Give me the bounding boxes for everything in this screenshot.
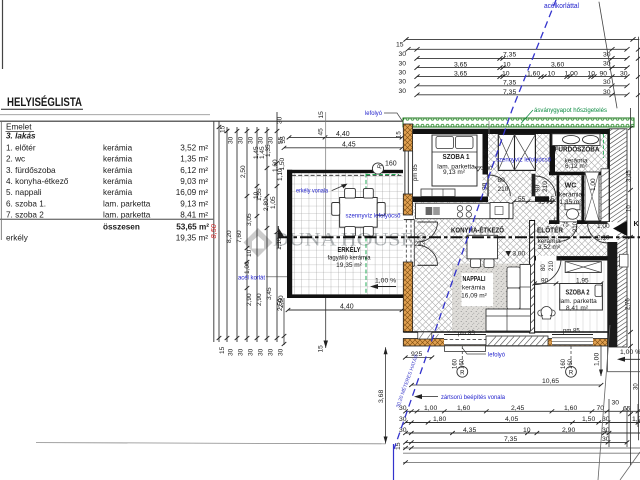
svg-text:30: 30 — [258, 136, 265, 144]
balcony bottom wall — [287, 295, 403, 299]
right party wall hatched band — [610, 129, 628, 347]
svg-text:30: 30 — [278, 348, 285, 356]
left wall orange segment 1 — [403, 124, 412, 151]
top ticks — [217, 125, 280, 340]
corridor dim line 55 95 5 — [514, 201, 556, 203]
svg-text:30: 30 — [248, 136, 255, 144]
dim 925 — [405, 357, 432, 359]
svg-text:kerámia: kerámia — [103, 188, 133, 197]
chain line 7 — [276, 112, 278, 342]
bottom row B3 — [406, 432, 640, 434]
chair right — [377, 203, 385, 216]
svg-text:2,50: 2,50 — [277, 298, 284, 311]
sofa seat bottom — [486, 309, 531, 331]
drop line 15 with arrow — [325, 298, 327, 348]
svg-text:HELYISÉGLISTA: HELYISÉGLISTA — [7, 94, 82, 109]
svg-text:10: 10 — [627, 205, 633, 212]
ásványgyapot leader — [521, 110, 533, 123]
dim line T1 — [406, 38, 639, 40]
svg-text:pm 85: pm 85 — [458, 331, 475, 337]
svg-text:erkély vonala: erkély vonala — [296, 188, 328, 195]
bottom wall pillar hatched — [418, 332, 432, 339]
svg-text:FÜRDŐSZOBA: FÜRDŐSZOBA — [555, 144, 601, 153]
shower box — [585, 172, 599, 221]
szoba1 door arc — [489, 175, 510, 196]
right slanted line — [598, 325, 610, 480]
page left border line — [2, 0, 4, 69]
chair left — [332, 203, 340, 216]
shaft X right — [515, 134, 536, 170]
svg-text:7. szoba 2: 7. szoba 2 — [6, 211, 44, 220]
dining table — [340, 198, 378, 228]
svg-text:NAPPALI: NAPPALI — [463, 274, 486, 283]
svg-text:30: 30 — [399, 60, 407, 67]
zártsorú arrow — [417, 396, 438, 398]
balcony tile grid — [292, 173, 403, 295]
svg-text:1,00: 1,00 — [424, 405, 437, 412]
upper faint line — [0, 114, 210, 116]
svg-text:2,50: 2,50 — [240, 165, 247, 178]
svg-text:8,41 m²: 8,41 m² — [180, 211, 208, 220]
wc right wall — [581, 175, 584, 224]
svg-text:90: 90 — [535, 184, 542, 192]
dim line T2 — [408, 48, 627, 50]
balcony top dim 4,45 — [284, 147, 402, 149]
szoba2 wardrobe — [565, 262, 601, 273]
corner box below building SE — [608, 347, 640, 372]
svg-text:lefolyó: lefolyó — [365, 110, 382, 117]
leader line to party wall — [599, 2, 617, 108]
svg-text:15: 15 — [318, 111, 325, 119]
svg-text:30: 30 — [258, 348, 265, 356]
svg-text:10,65: 10,65 — [542, 378, 559, 385]
downpipe 1 dashed — [461, 346, 463, 366]
svg-text:R: R — [569, 370, 574, 376]
svg-text:2. wc: 2. wc — [6, 155, 25, 164]
section marker right — [613, 221, 627, 236]
svg-text:2,45: 2,45 — [511, 405, 524, 412]
balcony top wall — [287, 170, 403, 173]
svg-text:8,20: 8,20 — [226, 230, 233, 243]
svg-text:1,05: 1,05 — [270, 196, 277, 209]
downpipe 2 dashed — [570, 346, 572, 366]
svg-text:3,45: 3,45 — [266, 287, 273, 300]
top wall — [403, 129, 618, 134]
right box small — [620, 254, 628, 267]
svg-text:3,68: 3,68 — [378, 390, 385, 403]
bottom wall inner line — [403, 331, 607, 333]
svg-text:55: 55 — [518, 196, 526, 203]
chain line 2 — [226, 127, 228, 342]
left wall orange segment 3 — [403, 262, 412, 332]
kitchen counter — [416, 203, 514, 219]
long line L4 — [403, 461, 640, 463]
szoba2 window gap in bottom wall — [552, 333, 593, 345]
shaft X left — [498, 134, 514, 170]
svg-text:4,40: 4,40 — [336, 131, 350, 138]
szoba1 bed — [432, 135, 477, 186]
downpipe 1 circle R — [457, 366, 468, 377]
svg-text:1,00: 1,00 — [244, 261, 251, 274]
szoba2 armchair — [541, 307, 552, 319]
svg-text:3,00: 3,00 — [513, 251, 526, 258]
svg-text:K: K — [634, 219, 640, 228]
svg-text:6,12 m²: 6,12 m² — [180, 166, 208, 175]
bathroom door leaf — [532, 174, 536, 197]
svg-text:3,52 m²: 3,52 m² — [538, 244, 561, 251]
bottom wall orange band — [403, 339, 608, 347]
svg-text:80: 80 — [498, 177, 506, 184]
erkély vonala leader arrow — [332, 185, 344, 190]
bathroom sink counter — [552, 134, 600, 146]
bottom row B2 — [406, 422, 640, 424]
svg-text:15: 15 — [318, 345, 325, 353]
NAPPALI text box — [461, 273, 493, 306]
svg-text:19,35 m²: 19,35 m² — [336, 262, 362, 269]
szoba1 window in left wall — [405, 151, 413, 194]
bed blanket line — [432, 151, 477, 153]
chair top right — [363, 189, 373, 199]
lefolyó leader — [462, 348, 486, 355]
dim 10,65 line — [412, 384, 602, 386]
chain line 6 — [266, 127, 268, 342]
wc bottom / elotér top wall — [549, 220, 608, 224]
blue vertical line bottom — [393, 444, 395, 480]
svg-text:30: 30 — [634, 383, 640, 390]
svg-text:1,00: 1,00 — [590, 178, 597, 191]
szoba2 right wall black — [607, 242, 617, 347]
dim line T5 — [417, 76, 627, 78]
svg-text:kerámia: kerámia — [103, 143, 133, 152]
svg-text:9,13 m²: 9,13 m² — [180, 199, 208, 208]
balcony top dim 4,40 — [289, 136, 402, 138]
svg-text:2,90: 2,90 — [246, 293, 253, 306]
svg-text:3. fürdőszoba: 3. fürdőszoba — [6, 166, 56, 175]
title underline — [1, 108, 83, 110]
svg-text:210: 210 — [549, 260, 555, 271]
svg-text:zártsorú beépítés vonala: zártsorú beépítés vonala — [441, 394, 505, 401]
svg-text:53,65 m²: 53,65 m² — [176, 222, 209, 231]
tile floor crosshatch — [413, 134, 608, 332]
svg-text:160: 160 — [460, 358, 466, 369]
svg-text:ásványgyapot hőszigetelés: ásványgyapot hőszigetelés — [534, 107, 608, 114]
chain line 1 — [218, 121, 220, 342]
circle R drain above balcony — [372, 163, 383, 174]
chair bottom right — [363, 227, 373, 237]
bottom row B1 — [406, 410, 640, 412]
dim 4,40 below balcony — [288, 309, 405, 311]
corridor bottom wall segment — [535, 196, 549, 202]
svg-text:R: R — [460, 370, 465, 376]
svg-text:1,55: 1,55 — [256, 188, 263, 201]
svg-text:45: 45 — [318, 128, 325, 136]
szoba2 parquet floor — [535, 261, 608, 334]
svg-text:30: 30 — [248, 348, 255, 356]
table left border — [0, 121, 2, 240]
svg-text:1,00 %: 1,00 % — [620, 349, 640, 356]
bathroom left wall — [550, 134, 556, 175]
sink bowl 2 — [583, 135, 599, 143]
svg-text:19,35 m²: 19,35 m² — [176, 233, 209, 242]
svg-text:30: 30 — [603, 79, 611, 86]
svg-text:15: 15 — [397, 131, 403, 138]
svg-text:4,05: 4,05 — [505, 416, 518, 423]
svg-text:acélkorláttal: acélkorláttal — [544, 3, 579, 10]
svg-text:1,60: 1,60 — [457, 405, 470, 412]
svg-text:15: 15 — [395, 442, 402, 450]
watermark registered mark — [418, 233, 426, 241]
svg-text:pm 85: pm 85 — [563, 329, 580, 335]
svg-text:1,00: 1,00 — [594, 353, 601, 366]
sink bowl 1 — [563, 135, 580, 143]
svg-text:30: 30 — [399, 70, 407, 77]
svg-text:szennyvíz lefolyócső: szennyvíz lefolyócső — [346, 212, 401, 219]
svg-text:160: 160 — [453, 358, 459, 369]
svg-text:4,35: 4,35 — [463, 427, 476, 434]
terrace door threshold — [445, 346, 486, 352]
green drain pipe horizontal dashed — [366, 174, 399, 176]
svg-text:16,09 m²: 16,09 m² — [176, 188, 209, 197]
svg-text:2,76: 2,76 — [626, 298, 632, 310]
svg-text:1,55: 1,55 — [483, 148, 490, 161]
svg-text:lam. parketta: lam. parketta — [103, 211, 151, 220]
svg-text:2,90: 2,90 — [562, 427, 575, 434]
radiator right — [601, 169, 609, 222]
svg-text:9,03 m²: 9,03 m² — [180, 177, 208, 186]
svg-text:7,35: 7,35 — [504, 436, 517, 443]
svg-text:3,52 m²: 3,52 m² — [180, 143, 208, 152]
bathroom right thin wall — [607, 129, 609, 222]
dim 3,68 vertical — [385, 347, 387, 443]
svg-text:160: 160 — [561, 358, 567, 369]
svg-text:kerámia: kerámia — [103, 166, 133, 175]
green drain pipe vertical dashed — [365, 174, 367, 295]
szoba1 bottom wall — [413, 197, 488, 203]
svg-text:30: 30 — [603, 52, 611, 59]
slope arrow — [372, 286, 396, 288]
svg-text:lefolyó: lefolyó — [488, 351, 505, 358]
svg-text:3,00: 3,00 — [481, 166, 492, 172]
level mark kitchen — [475, 167, 481, 171]
svg-text:16,09 m²: 16,09 m² — [461, 293, 487, 300]
table right border — [213, 121, 215, 342]
svg-text:30: 30 — [228, 136, 235, 144]
long line L1 — [36, 443, 386, 444]
dim line T4 — [417, 67, 627, 69]
bed pillow left — [436, 137, 454, 149]
szoba1 right wall upper — [483, 134, 489, 175]
svg-text:160: 160 — [385, 161, 397, 168]
svg-text:30: 30 — [399, 79, 407, 86]
svg-text:90: 90 — [541, 278, 549, 285]
svg-text:210: 210 — [573, 221, 579, 232]
svg-text:30: 30 — [238, 348, 245, 356]
left wall orange segment 2 — [403, 194, 412, 215]
svg-text:2,90: 2,90 — [256, 293, 263, 306]
svg-text:30: 30 — [399, 88, 407, 95]
level mark nappali — [506, 251, 512, 257]
railing dashed line top — [292, 174, 403, 176]
svg-text:1,2: 1,2 — [632, 416, 640, 423]
row 7 underline — [0, 218, 214, 220]
svg-text:1,00 %: 1,00 % — [375, 278, 396, 285]
szoba2 dim line — [535, 283, 601, 285]
kitchen chair 2 — [484, 259, 494, 267]
svg-text:1,35: 1,35 — [265, 144, 272, 157]
svg-text:55: 55 — [280, 136, 287, 144]
svg-text:kerámia: kerámia — [559, 192, 583, 199]
nappali right wall hatched — [530, 221, 535, 334]
bathroom door arc — [535, 176, 555, 196]
entry door arc — [588, 223, 608, 243]
szoba2 door gap white — [536, 256, 557, 261]
chain line 3 — [236, 127, 238, 342]
svg-text:SZOBA 1: SZOBA 1 — [443, 152, 470, 161]
svg-text:2,80: 2,80 — [263, 198, 270, 211]
svg-text:5. nappali: 5. nappali — [6, 188, 42, 197]
svg-text:30: 30 — [228, 348, 235, 356]
svg-text:összesen: összesen — [103, 222, 140, 231]
shaft box — [498, 134, 535, 170]
svg-text:kerámia: kerámia — [462, 285, 486, 292]
dim 1,00 right vertical — [600, 345, 602, 376]
svg-text:30: 30 — [268, 136, 275, 144]
svg-text:kerámia: kerámia — [103, 177, 133, 186]
svg-text:R: R — [419, 234, 424, 241]
acél korlát leader — [266, 276, 288, 278]
svg-text:80: 80 — [541, 264, 547, 271]
svg-text:9,13 m²: 9,13 m² — [443, 169, 466, 176]
szoba2 pillow — [595, 285, 602, 297]
table top border — [0, 120, 403, 122]
svg-text:10: 10 — [523, 427, 531, 434]
svg-text:lam. parketta: lam. parketta — [559, 298, 597, 305]
svg-text:3,45: 3,45 — [627, 170, 633, 182]
svg-text:30: 30 — [268, 348, 275, 356]
bottom row B4 — [406, 441, 628, 443]
sofa cushion 1 — [507, 267, 520, 288]
balcony door leaf lower — [418, 264, 438, 266]
blue dashed building line — [394, 0, 556, 449]
svg-text:15: 15 — [553, 218, 560, 224]
kitchen stove — [457, 206, 462, 211]
dim line T3 — [417, 57, 627, 59]
bed pillow right — [456, 137, 474, 149]
svg-text:3. lakás: 3. lakás — [6, 131, 36, 140]
svg-text:1. előtér: 1. előtér — [6, 143, 36, 152]
green insulation band — [403, 118, 634, 127]
shaft divider — [514, 134, 516, 170]
svg-text:szennyvíz lefolyócső: szennyvíz lefolyócső — [496, 157, 551, 164]
witness line x=325 — [325, 112, 327, 237]
wc left wall — [557, 175, 560, 224]
svg-text:SZOBA 2: SZOBA 2 — [566, 287, 590, 296]
terrace door gap in bottom wall — [444, 333, 486, 345]
svg-text:15: 15 — [396, 42, 404, 49]
svg-text:8,50: 8,50 — [209, 223, 218, 238]
svg-text:pm 85: pm 85 — [413, 164, 419, 181]
svg-text:1,60: 1,60 — [564, 405, 577, 412]
bathroom/wc divider wall — [549, 172, 608, 176]
section marker left — [278, 228, 284, 238]
chain line 4 — [246, 127, 248, 342]
svg-text:6. szoba 1.: 6. szoba 1. — [6, 199, 46, 208]
long line L2 — [403, 447, 640, 449]
svg-text:30: 30 — [612, 400, 620, 407]
lefolyó top leader — [384, 113, 403, 122]
chair top left — [345, 189, 356, 199]
entry gap in right wall — [607, 222, 618, 242]
svg-text:DUNA HOUSE: DUNA HOUSE — [273, 231, 414, 251]
svg-text:8,41 m²: 8,41 m² — [566, 305, 589, 312]
svg-text:erkély: erkély — [6, 233, 29, 242]
svg-text:Emelet: Emelet — [6, 123, 32, 132]
svg-text:30: 30 — [399, 51, 407, 58]
svg-text:6,12 m²: 6,12 m² — [565, 163, 588, 170]
svg-text:acél korlát: acél korlát — [238, 275, 265, 282]
svg-text:1,35 m²: 1,35 m² — [180, 155, 208, 164]
kitchen chair 1 — [471, 259, 481, 267]
svg-text:fagyálló kerámia: fagyálló kerámia — [328, 255, 371, 262]
right edge vertical chain — [638, 37, 640, 440]
szoba1 parquet floor — [413, 134, 483, 197]
svg-text:WC: WC — [565, 183, 577, 190]
dim line T7 — [417, 94, 627, 96]
kitchen sink — [426, 207, 433, 215]
balcony left wall — [287, 170, 292, 298]
svg-text:lam. parketta: lam. parketta — [103, 199, 151, 208]
svg-text:ELŐTÉR: ELŐTÉR — [537, 226, 564, 235]
szoba2 bed — [560, 284, 603, 311]
kitchen table — [467, 235, 498, 258]
svg-text:95: 95 — [538, 200, 545, 206]
svg-text:1,80: 1,80 — [433, 416, 446, 423]
dim line T6 — [417, 85, 627, 87]
watermark diamond logo — [244, 228, 273, 257]
right vertical chain lines — [608, 399, 610, 447]
svg-text:7,35: 7,35 — [503, 52, 516, 59]
szoba1 wardrobe — [421, 189, 455, 197]
sofa backrest — [520, 265, 531, 331]
toilet — [565, 204, 580, 210]
svg-text:15: 15 — [219, 346, 226, 354]
svg-text:3,05: 3,05 — [246, 213, 253, 226]
svg-text:1,00: 1,00 — [597, 223, 610, 230]
Emelet underline — [6, 130, 35, 132]
svg-text:210: 210 — [542, 181, 549, 192]
nappali stipple floor — [452, 264, 530, 332]
section line A-A — [279, 236, 640, 238]
svg-text:30: 30 — [238, 136, 245, 144]
downpipe 2 circle R — [566, 366, 577, 377]
wc door arc — [560, 224, 577, 241]
svg-text:kerámia: kerámia — [103, 155, 133, 164]
chain line 5 — [256, 127, 258, 342]
elotér/szoba2 wall — [530, 256, 608, 260]
svg-text:160: 160 — [568, 358, 574, 369]
fridge — [490, 203, 509, 219]
svg-text:75: 75 — [562, 223, 569, 229]
szoba2 parquet lines — [541, 261, 604, 333]
svg-text:1,50: 1,50 — [582, 416, 595, 423]
svg-text:4. konyha-étkező: 4. konyha-étkező — [6, 177, 69, 186]
svg-text:30: 30 — [277, 116, 284, 124]
balcony door leaf upper — [418, 221, 438, 223]
svg-text:4,40: 4,40 — [340, 304, 354, 311]
svg-text:210: 210 — [498, 186, 509, 193]
long line L3 — [403, 452, 640, 454]
szoba2 door arc — [535, 259, 561, 285]
